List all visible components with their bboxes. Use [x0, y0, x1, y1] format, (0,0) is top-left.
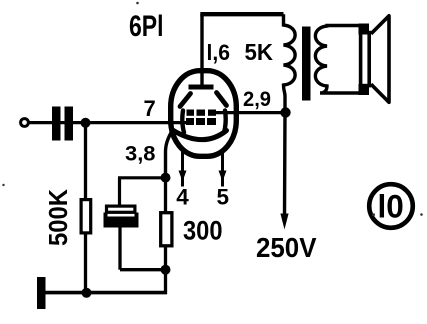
svg-text:6Pl: 6Pl: [129, 10, 164, 43]
svg-text:7: 7: [144, 96, 156, 121]
svg-text:5: 5: [217, 185, 230, 210]
svg-text:l0: l0: [378, 188, 404, 224]
svg-text:4: 4: [176, 185, 189, 210]
svg-text:2,9: 2,9: [243, 88, 271, 111]
svg-text:500K: 500K: [43, 189, 73, 246]
svg-text:5K: 5K: [245, 39, 274, 65]
svg-text:250V: 250V: [256, 232, 317, 263]
svg-text:3,8: 3,8: [125, 141, 156, 165]
svg-text:l,6: l,6: [207, 40, 231, 65]
svg-text:300: 300: [183, 215, 223, 245]
